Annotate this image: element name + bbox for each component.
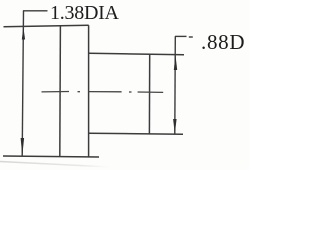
centerline dash 2 (88, 91, 121, 93)
centerline dot 1 (78, 91, 81, 93)
svg-text:1.38DIA: 1.38DIA (50, 2, 120, 24)
arrowhead up at cylinder top (174, 55, 177, 70)
flange left edge (59, 26, 62, 157)
centerline dash 1 (42, 91, 70, 93)
leader line to 1.38DIA text (23, 10, 48, 12)
leader line to .88D text (175, 35, 187, 37)
arrowhead down at flange bottom (21, 138, 25, 156)
arrowhead up at flange top (22, 27, 25, 39)
flange right edge (88, 25, 90, 157)
centerline dash 3 (138, 91, 164, 93)
paper background (0, 0, 249, 170)
cylinder right end face (148, 54, 150, 134)
svg-text:.88D: .88D (201, 30, 245, 54)
cylinder top edge with right extension line (89, 53, 184, 55)
flange bottom edge with left extension line (3, 156, 99, 157)
cylinder bottom edge with right extension line (89, 132, 183, 135)
leader dash segment (189, 36, 193, 38)
flange top edge with left extension line (4, 25, 89, 27)
dimension line for .88D (174, 36, 177, 134)
dimension line for 1.38DIA (22, 11, 23, 157)
centerline dot 2 (129, 91, 132, 93)
arrowhead down at cylinder bottom (173, 119, 177, 134)
